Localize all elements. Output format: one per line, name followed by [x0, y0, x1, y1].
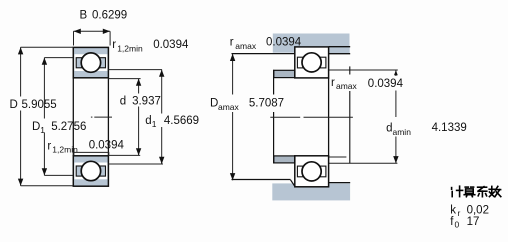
svg-text:d: d [120, 96, 126, 108]
shaft stub cut line left [273, 70, 275, 164]
bearing top cross-section (rings shaded) [73, 47, 108, 77]
dimension B: arrowheads [74, 29, 81, 34]
bearing top cross-section (right view, unshaded) [295, 47, 329, 78]
leader bracket for bottom r1,2min [74, 152, 109, 155]
svg-text:0.0394: 0.0394 [153, 39, 189, 51]
cage blocks top section (right view) [297, 57, 326, 68]
cage blocks bottom section (right view) [297, 166, 326, 177]
dimension d1: extension lines [108, 70, 163, 164]
svg-text:1: 1 [40, 125, 45, 135]
dimension damin: dimension line [395, 70, 397, 163]
cage blocks top section [76, 58, 105, 68]
wire: ring side faces connecting sections (right view) [328, 78, 330, 156]
svg-text:0.0394: 0.0394 [89, 140, 125, 152]
housing shoulder line Da (bottom right) [329, 182, 351, 184]
svg-text:B: B [80, 10, 88, 22]
svg-text:k: k [450, 205, 456, 217]
svg-text:0: 0 [455, 219, 460, 229]
housing band bottom (shaded) [272, 183, 350, 200]
svg-text:5.9055: 5.9055 [22, 99, 57, 111]
ball bottom section (right view) [302, 162, 321, 181]
dimension Damax: dimension line [232, 54, 234, 181]
housing shoulder line Da (bottom left) [232, 179, 291, 181]
housing band top (shaded) [273, 34, 350, 54]
svg-text:amin: amin [393, 127, 412, 137]
dimension d: arrowheads [136, 79, 141, 86]
dimension D: arrowheads [18, 47, 23, 54]
shaft shoulder stub bottom-left (darker) [274, 156, 295, 163]
dimension B: extension lines [74, 31, 111, 45]
bore extension line right bottom (short) [329, 156, 347, 158]
fillet corner bottom-left of bearing [291, 180, 295, 186]
da line right top [329, 69, 398, 71]
计算系数 heading (pseudo CJK glyphs) [452, 186, 501, 197]
svg-text:1,2min: 1,2min [117, 43, 143, 53]
dimension D1: dimension line [43, 58, 45, 176]
svg-text:4.1339: 4.1339 [432, 122, 467, 134]
svg-text:3.937: 3.937 [132, 96, 161, 108]
ball bottom section [81, 161, 100, 180]
svg-text:5.7087: 5.7087 [249, 98, 284, 110]
svg-text:r: r [47, 140, 51, 152]
bearing bottom cross-section (rings shaded) [73, 156, 108, 186]
cage blocks bottom section [76, 166, 105, 176]
svg-text:r: r [112, 39, 116, 51]
svg-text:amax: amax [218, 102, 240, 112]
svg-text:D: D [10, 99, 18, 111]
da line right bottom [327, 162, 397, 164]
housing bore line over right shoulder [329, 46, 351, 48]
dimension D1: arrowheads [42, 58, 47, 65]
dimension B: dimension line [74, 30, 111, 32]
svg-text:amax: amax [235, 41, 257, 51]
wire: bore cylinder edges connecting sections [73, 78, 108, 156]
dimension d: extension lines [108, 79, 140, 156]
svg-text:0.0394: 0.0394 [368, 78, 404, 90]
shaft shoulder stub top-left (darker) [274, 70, 295, 77]
ball top section (right view) [302, 53, 321, 72]
dimension D: dimension line [20, 47, 22, 186]
housing shoulder line Da (top right) [329, 53, 351, 55]
dimension d: dimension line [138, 79, 140, 156]
svg-text:5.2756: 5.2756 [51, 121, 86, 133]
axis centerline left view [91, 116, 112, 118]
housing shoulder line Da (top left) [232, 53, 295, 55]
svg-text:0,02: 0,02 [467, 205, 489, 217]
svg-text:4.5669: 4.5669 [164, 115, 199, 127]
svg-text:amax: amax [336, 81, 358, 91]
svg-text:17: 17 [467, 216, 480, 228]
shaft stub cut line right [349, 66, 351, 163]
svg-text:0.6299: 0.6299 [92, 10, 127, 22]
svg-text:r: r [230, 37, 234, 49]
dimension Damax: arrowheads [230, 54, 235, 61]
bearing bottom cross-section (right view, unshaded) [295, 156, 329, 187]
svg-text:r: r [458, 208, 461, 218]
svg-text:0.0394: 0.0394 [266, 37, 302, 49]
ball top section [81, 53, 100, 72]
dimension D1: extension lines [44, 58, 73, 176]
dimension D: extension lines [21, 47, 74, 186]
svg-text:D: D [32, 121, 40, 133]
dimension damin: arrowheads [394, 70, 398, 75]
svg-text:r: r [331, 77, 335, 89]
dimension d1: arrowheads [159, 70, 164, 77]
axis centerline right view [270, 116, 353, 118]
dimension d1: dimension line [161, 70, 163, 164]
